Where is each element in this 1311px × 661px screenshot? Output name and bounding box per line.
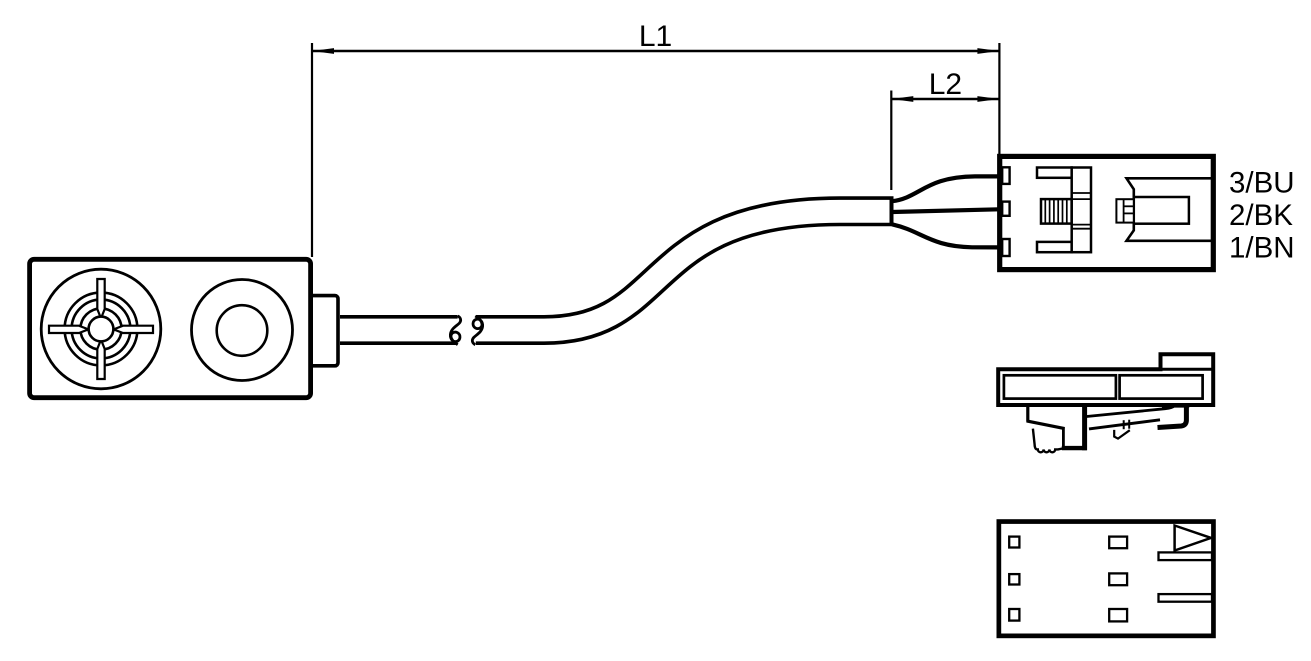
front view cavity B2 — [1109, 573, 1127, 585]
pin 1 entry — [1002, 239, 1009, 256]
side view band under body — [1162, 405, 1189, 408]
receptacle inner rect — [1134, 197, 1189, 224]
side view latch teeth — [1033, 429, 1063, 450]
contact spine notch lines — [1072, 193, 1091, 229]
dimension L1 line — [312, 50, 999, 53]
side view lever lower line — [1089, 420, 1160, 429]
side view catch tick 2 — [1128, 420, 1130, 429]
contact top bar — [1037, 168, 1072, 178]
side view inner rect left — [1004, 375, 1116, 398]
receptacle bottom line — [1127, 223, 1212, 241]
sensor face ring A — [65, 293, 138, 366]
side view catch tab — [1114, 430, 1130, 439]
side view lever hook — [1158, 406, 1187, 427]
dimension L2 left arrowhead — [891, 96, 913, 102]
side view left leg fill — [1030, 407, 1083, 446]
side view catch tick 1 — [1123, 420, 1125, 429]
receptacle contact box rung 2 — [1124, 212, 1134, 214]
sensor connector stub — [309, 296, 338, 366]
sensor face ring C — [80, 308, 121, 349]
side view top edge under step — [1161, 368, 1214, 371]
wire 2 (middle, to pin 2) — [892, 209, 999, 212]
svg-text:1/BN: 1/BN — [1229, 231, 1295, 264]
side view inner rect right — [1120, 375, 1203, 398]
side view foot bottom edge — [1062, 446, 1087, 450]
front view body — [999, 522, 1214, 636]
crimp hatched block — [1041, 199, 1072, 224]
dimension L2 right arrowhead — [977, 96, 999, 102]
svg-text:L2: L2 — [929, 68, 962, 101]
sensor face ring B — [72, 300, 131, 359]
front view key bar 1 — [1159, 552, 1213, 560]
sensor face outer circle — [41, 269, 161, 389]
side view lever upper line with hook — [1087, 406, 1174, 416]
sensor face center circle — [89, 317, 114, 342]
crosshair right bar — [114, 326, 153, 333]
wire 3 (top, to pin 3) — [892, 176, 999, 201]
front view key bar 2 — [1159, 594, 1213, 602]
front view cavity A2 — [1009, 574, 1019, 584]
crosshair left bar — [49, 326, 88, 333]
cable break left curl — [450, 316, 460, 345]
receptacle contact box — [1116, 199, 1133, 222]
dimension L2 line — [891, 98, 999, 101]
dimension L1 left arrowhead — [312, 48, 334, 54]
side view foot left edge — [1062, 428, 1065, 447]
side view leg diagonal — [1027, 421, 1065, 429]
pin 2 entry — [1002, 202, 1009, 216]
crosshair top bar — [97, 279, 104, 318]
sensor body — [30, 259, 311, 397]
receptacle contact box divider — [1123, 199, 1125, 222]
svg-text:L1: L1 — [639, 20, 672, 53]
contact bottom bar — [1037, 242, 1072, 252]
cable segment from sensor to break — [340, 315, 458, 345]
connector (plug view) body — [1000, 156, 1214, 269]
front view polarization triangle — [1175, 526, 1211, 551]
crosshair bottom bar — [97, 340, 104, 379]
pin 3 entry — [1002, 167, 1009, 184]
front view cavity A3 — [1009, 609, 1019, 621]
cable break right curl — [472, 316, 482, 345]
contact spine — [1072, 168, 1091, 253]
side view leg left edge — [1026, 404, 1029, 422]
wire 1 (bottom, to pin 1) — [892, 224, 999, 247]
dimension L1 right extension line — [998, 43, 1000, 155]
dimension L2 left extension line — [890, 91, 892, 191]
dimension L1 right arrowhead — [977, 48, 999, 54]
crimp hatch lines — [1045, 199, 1067, 224]
cable segment from break to jacket end (S-curve) — [476, 211, 894, 330]
receptacle top line — [1127, 178, 1212, 199]
receptacle contact box rung 1 — [1124, 205, 1134, 207]
side view leg right edge — [1082, 404, 1087, 451]
front view cavity A1 — [1009, 537, 1019, 548]
front view cavity B3 — [1109, 609, 1127, 621]
front view cavity B1 — [1109, 537, 1127, 549]
svg-text:2/BK: 2/BK — [1229, 199, 1293, 232]
dimension L1 left extension line — [311, 43, 313, 257]
sensor second hole outer circle — [192, 280, 293, 381]
svg-text:3/BU: 3/BU — [1229, 166, 1295, 199]
side view body — [998, 354, 1213, 405]
sensor second hole inner circle — [217, 305, 268, 356]
